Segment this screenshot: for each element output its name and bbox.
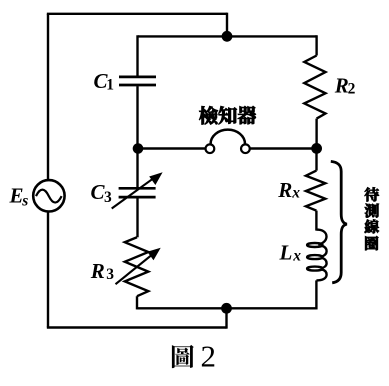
wire: left vertical upper (source top to outer top-left corner) bbox=[47, 14, 49, 180]
detector arc bbox=[211, 130, 245, 144]
wire: jog down from outer top to junction A bbox=[226, 13, 228, 37]
wire: top of C1 branch bbox=[136, 35, 138, 75]
junction node D (outer bottom to inner bottom) bbox=[221, 303, 232, 314]
detector right terminal (open circle) bbox=[241, 144, 250, 153]
inductor Lx coil bbox=[307, 230, 327, 281]
brace (marks coil under test Rx+Lx) bbox=[331, 161, 347, 282]
wire: outer bottom horizontal bbox=[47, 326, 227, 328]
svg-text:s: s bbox=[21, 192, 28, 209]
svg-text:3: 3 bbox=[104, 189, 112, 206]
svg-text:x: x bbox=[292, 248, 301, 265]
svg-text:R: R bbox=[277, 178, 292, 202]
svg-text:2: 2 bbox=[348, 81, 356, 98]
wire: inner top horizontal (node B to node C) bbox=[138, 35, 317, 37]
wire: R3 bottom to inner bottom wire bbox=[136, 296, 138, 309]
svg-text:1: 1 bbox=[106, 76, 114, 93]
node E (left bridge node) bbox=[133, 143, 144, 154]
wire: node F to Rx top bbox=[315, 148, 317, 170]
wire: detector right terminal to node F bbox=[250, 147, 317, 149]
wire: jog up from outer bottom to junction D bbox=[225, 308, 227, 328]
resistor R2 zigzag bbox=[304, 56, 325, 119]
wire: inner bottom horizontal (left branch to right branch) bbox=[137, 307, 317, 309]
AC source Es circle bbox=[33, 180, 64, 211]
wire: node E to detector left terminal bbox=[138, 147, 206, 149]
capacitor C1 bbox=[119, 77, 156, 85]
wire: left vertical lower (source bottom to outer bottom-left corner) bbox=[47, 212, 49, 327]
label R2 bbox=[334, 73, 356, 97]
wire: node C to R2 top bbox=[315, 35, 317, 55]
wire: outer top horizontal bbox=[47, 13, 227, 15]
wire: Rx bottom to Lx top bbox=[315, 211, 317, 231]
capacitor C3 (variable) plates bbox=[119, 188, 156, 197]
label 檢知器 (detector) bbox=[199, 106, 255, 124]
resistor R3 (variable) zigzag bbox=[125, 237, 149, 296]
svg-text:x: x bbox=[291, 185, 300, 202]
label C1 bbox=[94, 69, 115, 94]
label Lx bbox=[279, 240, 302, 264]
label 待測線圈 (coil under test), vertical bbox=[365, 187, 379, 250]
junction node A (outer top to inner top) bbox=[222, 31, 233, 42]
wire: node E to C3 top bbox=[136, 149, 138, 188]
AC source Es sine wave bbox=[36, 190, 62, 203]
svg-text:3: 3 bbox=[106, 266, 114, 283]
svg-text:2: 2 bbox=[201, 338, 217, 373]
label Es bbox=[9, 184, 29, 210]
wire: C1 bottom to node E bbox=[136, 86, 138, 148]
wire: Lx bottom to inner bottom wire bbox=[315, 280, 317, 309]
svg-text:L: L bbox=[279, 240, 293, 264]
wire: R2 bottom to node F bbox=[315, 119, 317, 149]
caption 圖 2 bbox=[172, 338, 216, 373]
capacitor C3 variable arrow bbox=[112, 172, 163, 208]
label R3 bbox=[90, 259, 115, 283]
resistor Rx zigzag bbox=[306, 171, 325, 211]
resistor R3 variable arrow bbox=[116, 248, 161, 285]
label C3 bbox=[91, 180, 113, 206]
node F (right bridge node) bbox=[311, 143, 322, 154]
svg-text:R: R bbox=[90, 259, 105, 283]
wire: C3 bottom to R3 top bbox=[136, 198, 138, 237]
label Rx bbox=[277, 178, 300, 202]
svg-text:R: R bbox=[334, 73, 349, 97]
detector left terminal (open circle) bbox=[206, 144, 215, 153]
